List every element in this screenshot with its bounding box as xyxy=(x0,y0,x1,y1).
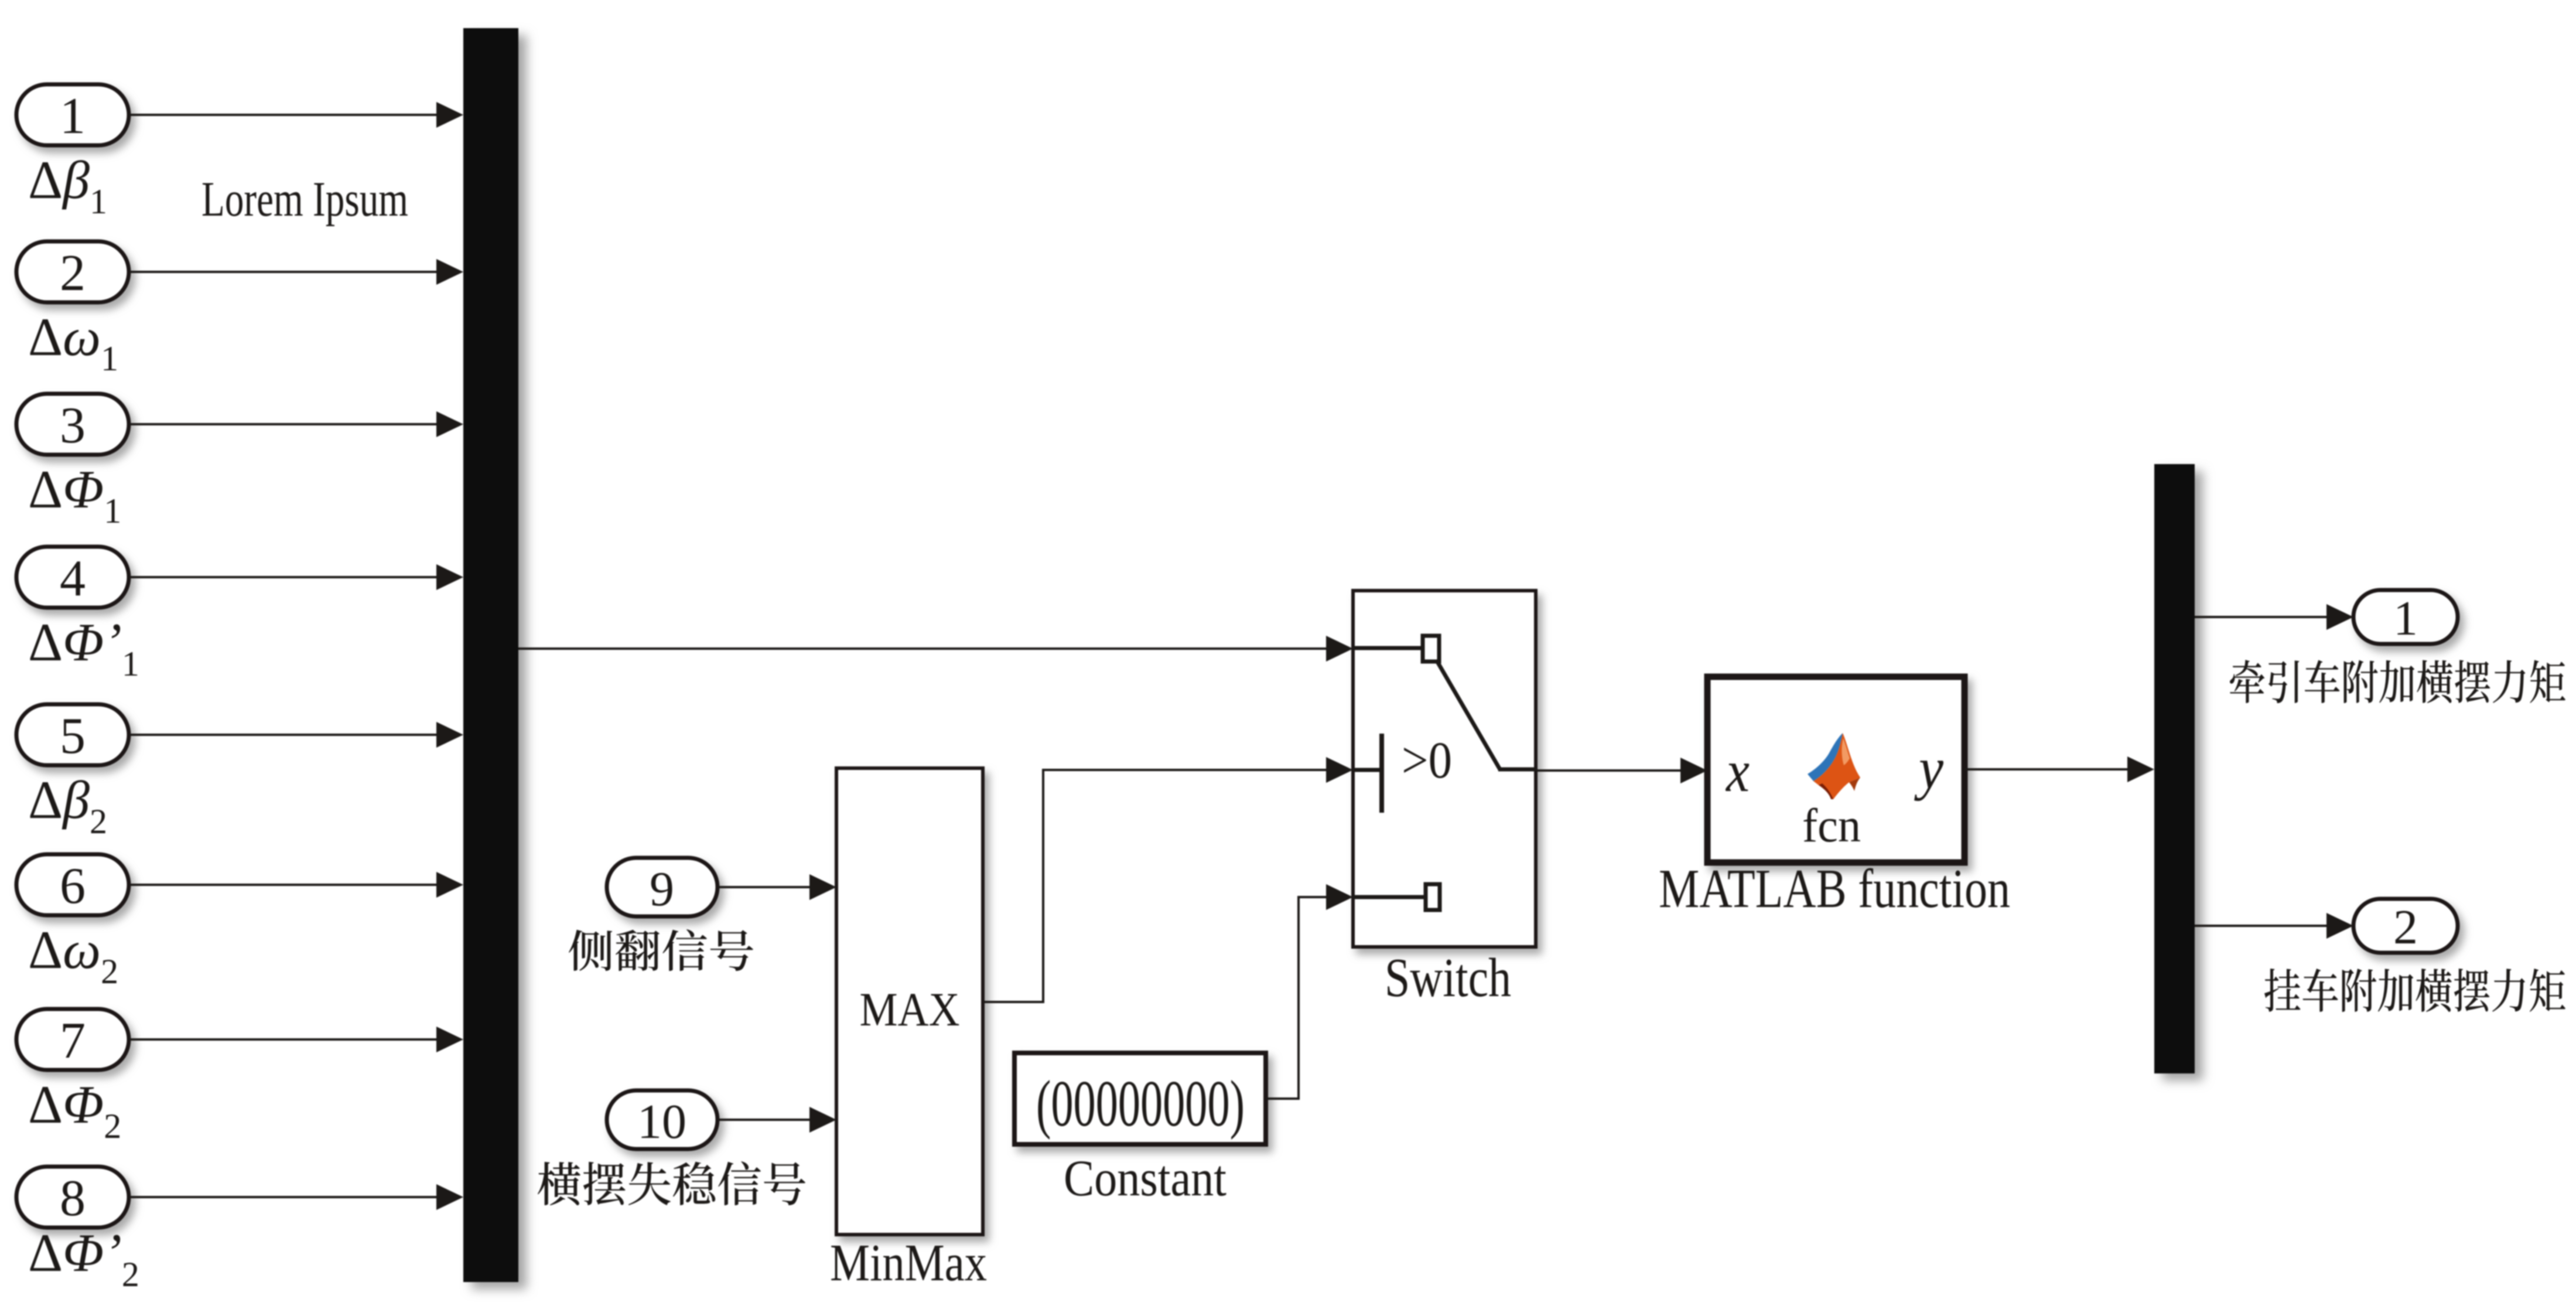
svg-text:4: 4 xyxy=(60,550,86,607)
inport 1 xyxy=(16,84,129,145)
svg-text:MinMax: MinMax xyxy=(830,1234,987,1292)
svg-text:1: 1 xyxy=(60,88,86,145)
svg-text:ΔΦ1: ΔΦ1 xyxy=(28,459,121,530)
wire inport 8 to mux xyxy=(129,1196,438,1198)
inport 8 xyxy=(16,1167,129,1228)
inport 10 xyxy=(607,1090,718,1149)
svg-text:ΔΦ’1: ΔΦ’1 xyxy=(28,612,139,683)
svg-text:10: 10 xyxy=(637,1095,686,1149)
mux bar xyxy=(463,28,518,1282)
svg-text:Switch: Switch xyxy=(1385,947,1511,1008)
svg-text:Δβ1: Δβ1 xyxy=(28,150,107,221)
svg-text:Δβ2: Δβ2 xyxy=(28,770,107,841)
wire inport 9 to MinMax xyxy=(718,886,811,888)
outport 2 xyxy=(2353,899,2458,953)
wire inport 10 to MinMax xyxy=(718,1119,811,1121)
label 横摆失稳信号 xyxy=(538,1161,805,1205)
svg-text:ΔΦ’2: ΔΦ’2 xyxy=(28,1223,139,1294)
block Switch xyxy=(1353,591,1536,947)
inport 6 xyxy=(16,854,129,915)
svg-text:MATLAB function: MATLAB function xyxy=(1659,858,2010,919)
wire mux to switch top input xyxy=(518,647,1327,650)
svg-text:>0: >0 xyxy=(1402,732,1452,789)
svg-text:Δω1: Δω1 xyxy=(28,307,118,378)
block MinMax xyxy=(836,768,983,1235)
svg-text:(00000000): (00000000) xyxy=(1036,1068,1245,1140)
wire MinMax to switch middle input xyxy=(983,1001,1044,1003)
svg-text:fcn: fcn xyxy=(1802,799,1861,852)
MATLAB logo xyxy=(1808,733,1860,799)
wire Constant to switch bottom input xyxy=(1266,1097,1300,1100)
wire inport 7 to mux xyxy=(129,1038,438,1041)
wire MATLAB function to demux xyxy=(1965,768,2129,771)
svg-text:ΔΦ2: ΔΦ2 xyxy=(28,1075,121,1146)
demux bar xyxy=(2154,464,2195,1073)
switch lever diagonal xyxy=(1436,660,1501,771)
switch inner top port xyxy=(1353,646,1423,650)
svg-text:1: 1 xyxy=(2393,591,2418,646)
switch threshold mark xyxy=(1379,734,1384,813)
svg-text:5: 5 xyxy=(60,708,86,765)
inport 7 xyxy=(16,1009,129,1070)
outport 1 xyxy=(2353,590,2458,644)
svg-text:8: 8 xyxy=(60,1170,86,1227)
wire inport 1 to mux xyxy=(129,114,438,116)
svg-text:9: 9 xyxy=(650,862,674,916)
block MATLAB function U1 xyxy=(1707,677,1965,863)
label 侧翻信号 xyxy=(569,929,753,971)
svg-text:6: 6 xyxy=(60,858,86,915)
inport 4 xyxy=(16,547,129,608)
wire inport 2 to mux xyxy=(129,271,438,273)
svg-text:7: 7 xyxy=(60,1013,86,1069)
svg-text:2: 2 xyxy=(60,245,86,302)
inport 3 xyxy=(16,394,129,455)
wire inport 3 to mux xyxy=(129,423,438,425)
wire inport 6 to mux xyxy=(129,884,438,886)
svg-text:3: 3 xyxy=(60,397,86,454)
label 挂车附加横摆力矩 xyxy=(2264,969,2565,1012)
wire demux to outport 2 xyxy=(2195,925,2328,927)
svg-text:2: 2 xyxy=(2393,900,2418,955)
label 牵引车附加横摆力矩 xyxy=(2230,660,2565,703)
inport 2 xyxy=(16,241,129,302)
wire demux to outport 1 xyxy=(2195,616,2328,618)
svg-text:y: y xyxy=(1914,735,1944,802)
switch inner bottom port xyxy=(1353,895,1426,899)
svg-text:x: x xyxy=(1725,738,1750,805)
wire switch to MATLAB function xyxy=(1536,769,1682,772)
block Constant xyxy=(1014,1053,1266,1144)
wire inport 5 to mux xyxy=(129,734,438,736)
svg-text:MAX: MAX xyxy=(860,983,960,1036)
inport 5 xyxy=(16,704,129,765)
svg-text:Δω2: Δω2 xyxy=(28,920,118,991)
inport 9 xyxy=(607,858,718,916)
svg-text:Constant: Constant xyxy=(1064,1150,1226,1207)
svg-text:Lorem Ipsum: Lorem Ipsum xyxy=(201,172,408,227)
wire inport 4 to mux xyxy=(129,576,438,578)
